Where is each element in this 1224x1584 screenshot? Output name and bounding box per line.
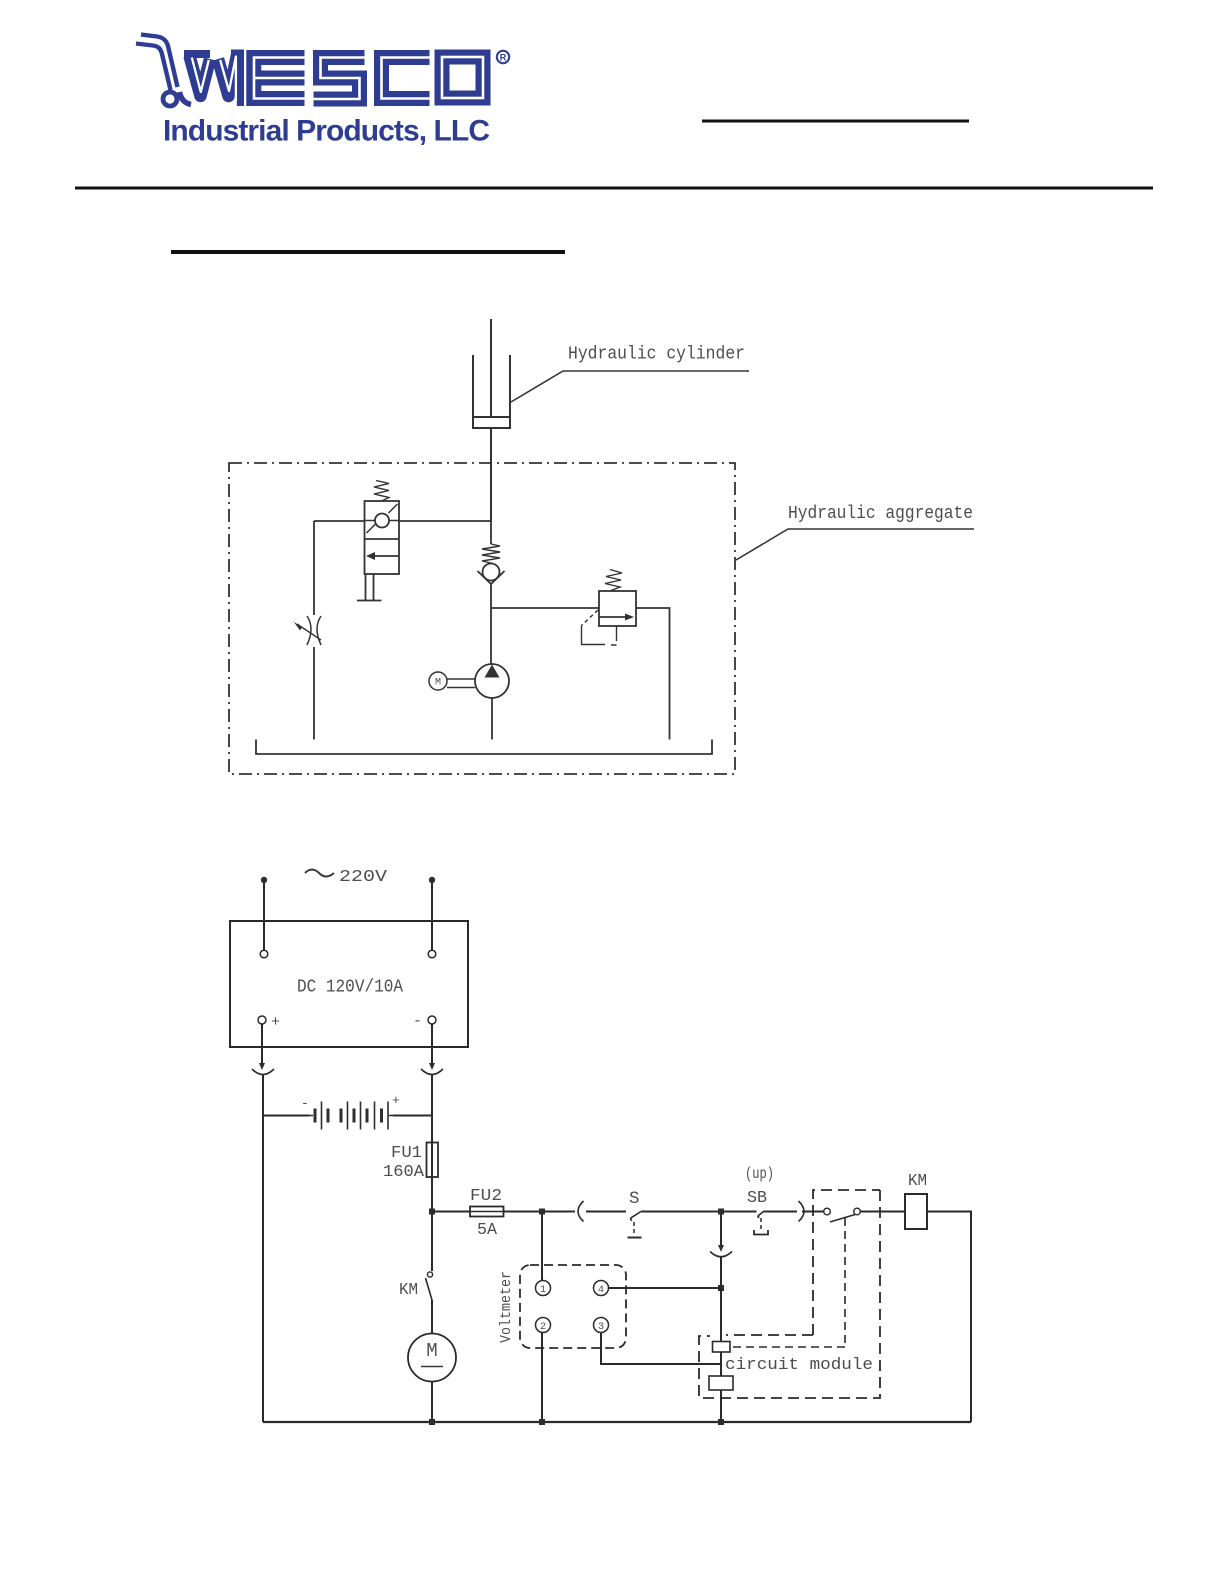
wire to relief valve bbox=[491, 607, 599, 609]
KM main contact bbox=[431, 1212, 433, 1272]
hydraulic cylinder rod wire bbox=[490, 319, 492, 417]
node module rail bbox=[718, 1419, 724, 1425]
motor M underline bbox=[421, 1366, 443, 1368]
wire to switch S bbox=[586, 1211, 626, 1213]
contactor coil KM bbox=[905, 1194, 927, 1229]
svg-text:DC 120V/10A: DC 120V/10A bbox=[297, 978, 403, 998]
wire left branch top bbox=[314, 520, 491, 522]
battery tick left bbox=[308, 1115, 313, 1117]
svg-text:Hydraulic cylinder: Hydraulic cylinder bbox=[568, 344, 745, 365]
wire arc to contact bbox=[802, 1211, 823, 1213]
hydraulic cylinder piston bbox=[473, 416, 510, 418]
svg-text:FU1: FU1 bbox=[391, 1144, 422, 1163]
wire relief to tank bbox=[636, 608, 670, 740]
letter W bottom wrap bbox=[180, 92, 192, 105]
wire FU1 to junction bbox=[431, 1177, 433, 1212]
switch SB blade bbox=[758, 1212, 764, 1218]
switch S blade bbox=[631, 1212, 641, 1221]
node junction main bbox=[429, 1209, 435, 1215]
check valve spring bbox=[482, 544, 500, 564]
letter W right bar bbox=[237, 50, 244, 107]
wire terminal3 down bbox=[601, 1333, 721, 1365]
letter E white inline bbox=[254, 58, 305, 99]
pump triangle bbox=[485, 665, 500, 678]
letter W white inline left bbox=[192, 58, 209, 93]
check valve ball bbox=[483, 564, 500, 581]
module component R2 bbox=[709, 1376, 733, 1390]
wire arc to node4 bbox=[720, 1256, 722, 1288]
wesco handle upper stroke bbox=[141, 35, 178, 88]
svg-text:-: - bbox=[301, 1096, 309, 1111]
wire main line mid bbox=[490, 521, 492, 664]
svg-text:Industrial Products, LLC: Industrial Products, LLC bbox=[163, 115, 490, 148]
letter S blue body bbox=[314, 58, 365, 100]
relief valve block bbox=[599, 591, 636, 626]
svg-text:-: - bbox=[413, 1013, 422, 1030]
throttle valve bbox=[307, 616, 311, 645]
AC terminal dot left bbox=[261, 877, 267, 883]
wire minus to battery bbox=[431, 1074, 433, 1116]
KM auxiliary contact circles bbox=[824, 1208, 831, 1215]
svg-text:S: S bbox=[629, 1189, 640, 1209]
wire battery to FU1 bbox=[431, 1116, 433, 1143]
letter C white inline bbox=[382, 58, 430, 99]
pump circle bbox=[475, 664, 509, 698]
svg-text:5A: 5A bbox=[477, 1221, 498, 1240]
wire junction to FU2 bbox=[432, 1211, 470, 1213]
AC terminal dot right bbox=[429, 877, 435, 883]
voltmeter terminal 1 bbox=[536, 1281, 551, 1296]
unloading valve divider bbox=[365, 538, 400, 540]
voltmeter terminal 4 bbox=[594, 1281, 609, 1296]
letter S white inline bbox=[314, 58, 365, 100]
connector arc c3 bbox=[710, 1252, 732, 1257]
wire KM contact to motor bbox=[431, 1300, 433, 1334]
letter O blue body bbox=[442, 57, 483, 98]
model number underline (top right) bbox=[702, 120, 969, 123]
relief valve arrow bbox=[599, 616, 631, 618]
header rule bbox=[75, 187, 1153, 190]
svg-text:R: R bbox=[500, 53, 507, 63]
wire AC right bbox=[431, 880, 433, 950]
tilde 220V bbox=[305, 870, 334, 877]
unloading valve block bbox=[365, 501, 400, 574]
motor M circle bbox=[408, 1334, 456, 1382]
motor circle bbox=[429, 672, 447, 690]
svg-text:+: + bbox=[271, 1014, 280, 1031]
svg-text:220V: 220V bbox=[339, 868, 388, 887]
node terminal4 junction bbox=[718, 1285, 724, 1291]
letter W right V bbox=[218, 55, 237, 96]
battery wire left bbox=[263, 1115, 309, 1117]
fuse FU2 bbox=[470, 1207, 504, 1217]
unloading valve inner wire bbox=[365, 520, 400, 522]
wire left branch vertical bbox=[313, 521, 315, 740]
wire plus to battery bbox=[262, 1074, 264, 1116]
switch S actuator bbox=[633, 1222, 635, 1236]
svg-text:3: 3 bbox=[598, 1322, 604, 1333]
leader line hydraulic cylinder bbox=[511, 371, 749, 402]
wire cylinder to aggregate bbox=[490, 428, 492, 521]
connector arc c1 bbox=[578, 1201, 584, 1222]
motor shaft bbox=[447, 679, 475, 688]
switch SB actuator bbox=[760, 1218, 762, 1229]
letter E blue body bbox=[254, 58, 305, 99]
wire left rail down bbox=[262, 1116, 264, 1423]
svg-text:Hydraulic aggregate: Hydraulic aggregate bbox=[788, 503, 973, 524]
fuse FU1 bbox=[427, 1143, 439, 1178]
KM auxiliary contact blade bbox=[830, 1215, 855, 1223]
unloading valve drain bar bbox=[357, 600, 382, 602]
svg-text:KM: KM bbox=[908, 1172, 927, 1191]
svg-text:M: M bbox=[435, 678, 441, 689]
wire SB node down bbox=[720, 1212, 722, 1250]
wire FU2 to node bbox=[504, 1211, 576, 1213]
bottom rail bbox=[263, 1421, 971, 1423]
svg-text:Voltmeter: Voltmeter bbox=[499, 1271, 515, 1343]
wire AC left bbox=[263, 880, 265, 950]
letter W white inline right bbox=[220, 57, 236, 102]
letter O white inline bbox=[442, 57, 483, 98]
svg-text:KM: KM bbox=[399, 1281, 418, 1300]
svg-text:M: M bbox=[426, 1340, 437, 1362]
battery wire right bbox=[393, 1115, 432, 1117]
relief valve pilot line bbox=[582, 610, 599, 626]
wire coil to right rail bbox=[927, 1212, 971, 1423]
wire module to rail bbox=[720, 1390, 722, 1422]
svg-text:FU2: FU2 bbox=[470, 1187, 502, 1206]
wire S to node bbox=[641, 1211, 721, 1213]
circuit module dashed box bbox=[699, 1190, 880, 1398]
wire contact to coil bbox=[861, 1211, 906, 1213]
svg-text:SB: SB bbox=[747, 1189, 767, 1208]
wire SB to arc bbox=[764, 1211, 798, 1213]
letter W left V bbox=[190, 56, 211, 96]
unloading valve drain legs bbox=[366, 574, 374, 601]
module component R1 bbox=[713, 1342, 731, 1353]
hydraulic cylinder body bbox=[473, 355, 510, 428]
connector arc left bbox=[252, 1069, 274, 1075]
letter C blue body bbox=[382, 58, 430, 99]
battery cells bbox=[315, 1102, 388, 1130]
terminal circle top-left bbox=[260, 950, 268, 958]
voltmeter terminal 2 bbox=[536, 1318, 551, 1333]
check valve seat bbox=[478, 571, 505, 584]
node voltmeter branch bbox=[539, 1209, 545, 1215]
terminal circle plus bbox=[258, 1016, 266, 1024]
hydraulic aggregate dash-dot box bbox=[229, 463, 735, 774]
terminal circle top-right bbox=[428, 950, 436, 958]
wire node4 to module bbox=[720, 1288, 722, 1342]
letter W peak caps bbox=[184, 50, 210, 58]
wire node to SB bbox=[721, 1211, 757, 1213]
leader line hydraulic aggregate bbox=[736, 529, 974, 560]
power supply box bbox=[230, 921, 468, 1047]
battery tick right bbox=[389, 1115, 394, 1117]
wire between module parts bbox=[720, 1352, 722, 1376]
wesco handle lower stroke bbox=[136, 44, 171, 91]
connector arc right bbox=[421, 1069, 443, 1075]
wire from minus bbox=[431, 1024, 433, 1066]
voltmeter terminal 3 bbox=[594, 1318, 609, 1333]
svg-text:2: 2 bbox=[540, 1322, 546, 1333]
section title underline bbox=[171, 250, 565, 254]
wire terminal4 to node bbox=[609, 1287, 722, 1289]
svg-text:(up): (up) bbox=[745, 1165, 774, 1183]
registered mark bbox=[497, 51, 509, 63]
voltmeter dashed box bbox=[520, 1265, 626, 1348]
node SB branch bbox=[718, 1209, 724, 1215]
relief valve drain bbox=[611, 626, 617, 645]
unloading valve spring bbox=[374, 481, 389, 502]
KM aux linkage dashed bbox=[844, 1218, 846, 1345]
wire terminal2 to rail bbox=[541, 1333, 543, 1423]
wire pump to tank bbox=[491, 698, 493, 740]
svg-text:+: + bbox=[392, 1093, 400, 1108]
connector arc c2 bbox=[799, 1201, 805, 1222]
wire node to terminal1 bbox=[541, 1212, 543, 1281]
upper dashed box bbox=[813, 1190, 880, 1335]
svg-text:4: 4 bbox=[598, 1285, 604, 1296]
relief valve spring bbox=[605, 570, 622, 591]
unloading valve check ball bbox=[375, 514, 389, 528]
unloading valve flow arrow bbox=[368, 555, 399, 557]
wire motor to rail bbox=[431, 1382, 433, 1423]
svg-text:1: 1 bbox=[540, 1285, 546, 1296]
svg-text:circuit module: circuit module bbox=[725, 1355, 873, 1374]
tank bbox=[256, 740, 712, 755]
terminal circle minus bbox=[428, 1016, 436, 1024]
node voltmeter rail bbox=[539, 1419, 545, 1425]
node motor rail bbox=[429, 1419, 435, 1425]
wesco wheel bbox=[163, 92, 177, 106]
wire from plus bbox=[261, 1024, 263, 1066]
svg-text:160A: 160A bbox=[383, 1163, 425, 1182]
